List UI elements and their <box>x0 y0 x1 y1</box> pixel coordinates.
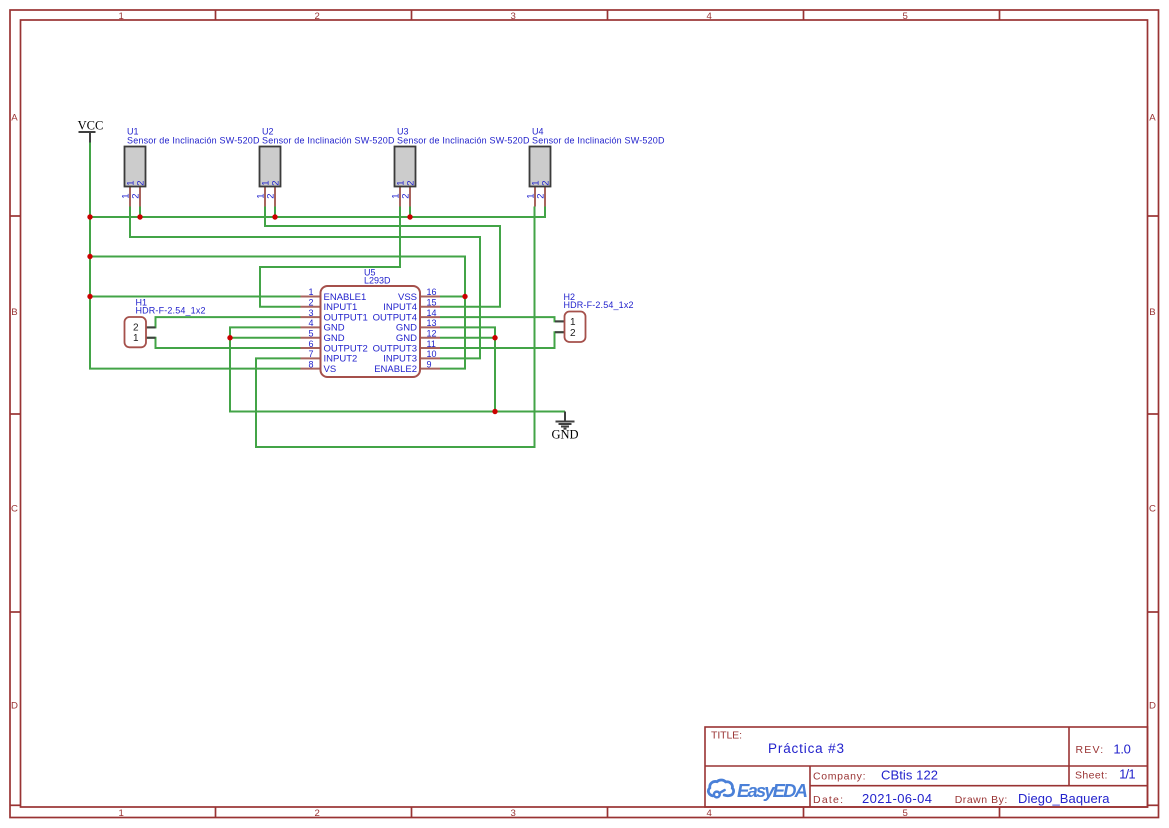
svg-text:1.0: 1.0 <box>1113 741 1131 756</box>
svg-text:Sheet:: Sheet: <box>1075 769 1107 781</box>
svg-text:8: 8 <box>308 359 313 369</box>
svg-text:Sensor de Inclinación SW-520D: Sensor de Inclinación SW-520D <box>532 136 665 146</box>
svg-text:EasyEDA: EasyEDA <box>737 780 808 801</box>
svg-text:C: C <box>1149 504 1156 515</box>
svg-text:GND: GND <box>396 333 417 344</box>
svg-text:9: 9 <box>427 359 432 369</box>
svg-text:2: 2 <box>308 298 313 308</box>
svg-text:A: A <box>1149 113 1156 124</box>
svg-text:GND: GND <box>324 333 345 344</box>
svg-text:Sensor de Inclinación SW-520D: Sensor de Inclinación SW-520D <box>397 136 530 146</box>
svg-text:GND: GND <box>551 428 578 442</box>
svg-text:Drawn By:: Drawn By: <box>955 794 1008 806</box>
svg-text:2: 2 <box>541 181 552 186</box>
svg-text:D: D <box>1149 701 1156 712</box>
svg-text:3: 3 <box>511 808 516 819</box>
svg-text:Práctica #3: Práctica #3 <box>768 741 844 756</box>
svg-text:2: 2 <box>315 11 320 22</box>
svg-text:TITLE:: TITLE: <box>711 730 742 742</box>
svg-text:13: 13 <box>427 318 437 328</box>
svg-text:B: B <box>1149 307 1155 318</box>
svg-text:3: 3 <box>308 308 313 318</box>
svg-text:1: 1 <box>119 808 124 819</box>
svg-text:Sensor de Inclinación SW-520D: Sensor de Inclinación SW-520D <box>127 136 260 146</box>
svg-text:1: 1 <box>133 333 139 344</box>
svg-text:2: 2 <box>131 194 142 199</box>
svg-text:12: 12 <box>427 328 437 338</box>
svg-text:REV:: REV: <box>1076 744 1104 756</box>
svg-text:15: 15 <box>427 298 437 308</box>
svg-text:2: 2 <box>266 194 277 199</box>
svg-text:1/1: 1/1 <box>1119 766 1136 781</box>
svg-text:Company:: Company: <box>813 770 866 782</box>
svg-text:1: 1 <box>119 11 124 22</box>
svg-text:5: 5 <box>308 328 313 338</box>
svg-text:CBtis 122: CBtis 122 <box>881 767 938 782</box>
svg-text:5: 5 <box>903 11 908 22</box>
svg-text:10: 10 <box>427 349 437 359</box>
svg-text:B: B <box>11 307 17 318</box>
svg-text:1: 1 <box>570 317 576 328</box>
svg-text:C: C <box>11 504 18 515</box>
svg-text:2: 2 <box>406 181 417 186</box>
svg-text:2: 2 <box>136 181 147 186</box>
svg-text:2: 2 <box>271 181 282 186</box>
svg-text:2: 2 <box>133 323 139 334</box>
svg-text:Sensor de Inclinación SW-520D: Sensor de Inclinación SW-520D <box>262 136 395 146</box>
svg-text:16: 16 <box>427 287 437 297</box>
svg-text:VCC: VCC <box>78 119 104 133</box>
svg-text:2: 2 <box>570 328 576 339</box>
svg-text:HDR-F-2.54_1x2: HDR-F-2.54_1x2 <box>564 300 634 310</box>
svg-text:5: 5 <box>903 808 908 819</box>
svg-text:2: 2 <box>536 194 547 199</box>
svg-text:4: 4 <box>308 318 313 328</box>
svg-text:2021-06-04: 2021-06-04 <box>862 791 932 806</box>
svg-text:ENABLE2: ENABLE2 <box>374 364 417 375</box>
svg-text:11: 11 <box>427 339 436 349</box>
svg-text:3: 3 <box>511 11 516 22</box>
svg-text:4: 4 <box>707 808 713 819</box>
svg-text:2: 2 <box>315 808 320 819</box>
svg-text:4: 4 <box>707 11 713 22</box>
svg-text:HDR-F-2.54_1x2: HDR-F-2.54_1x2 <box>136 306 206 316</box>
svg-text:VS: VS <box>324 364 337 375</box>
svg-text:Date:: Date: <box>813 794 843 806</box>
svg-text:1: 1 <box>308 287 313 297</box>
svg-text:D: D <box>11 701 18 712</box>
svg-text:6: 6 <box>308 339 313 349</box>
svg-text:14: 14 <box>427 308 437 318</box>
svg-text:7: 7 <box>308 349 313 359</box>
svg-text:Diego_Baquera: Diego_Baquera <box>1018 791 1110 806</box>
svg-text:2: 2 <box>401 194 412 199</box>
svg-text:A: A <box>11 113 18 124</box>
svg-text:L293D: L293D <box>364 276 391 286</box>
